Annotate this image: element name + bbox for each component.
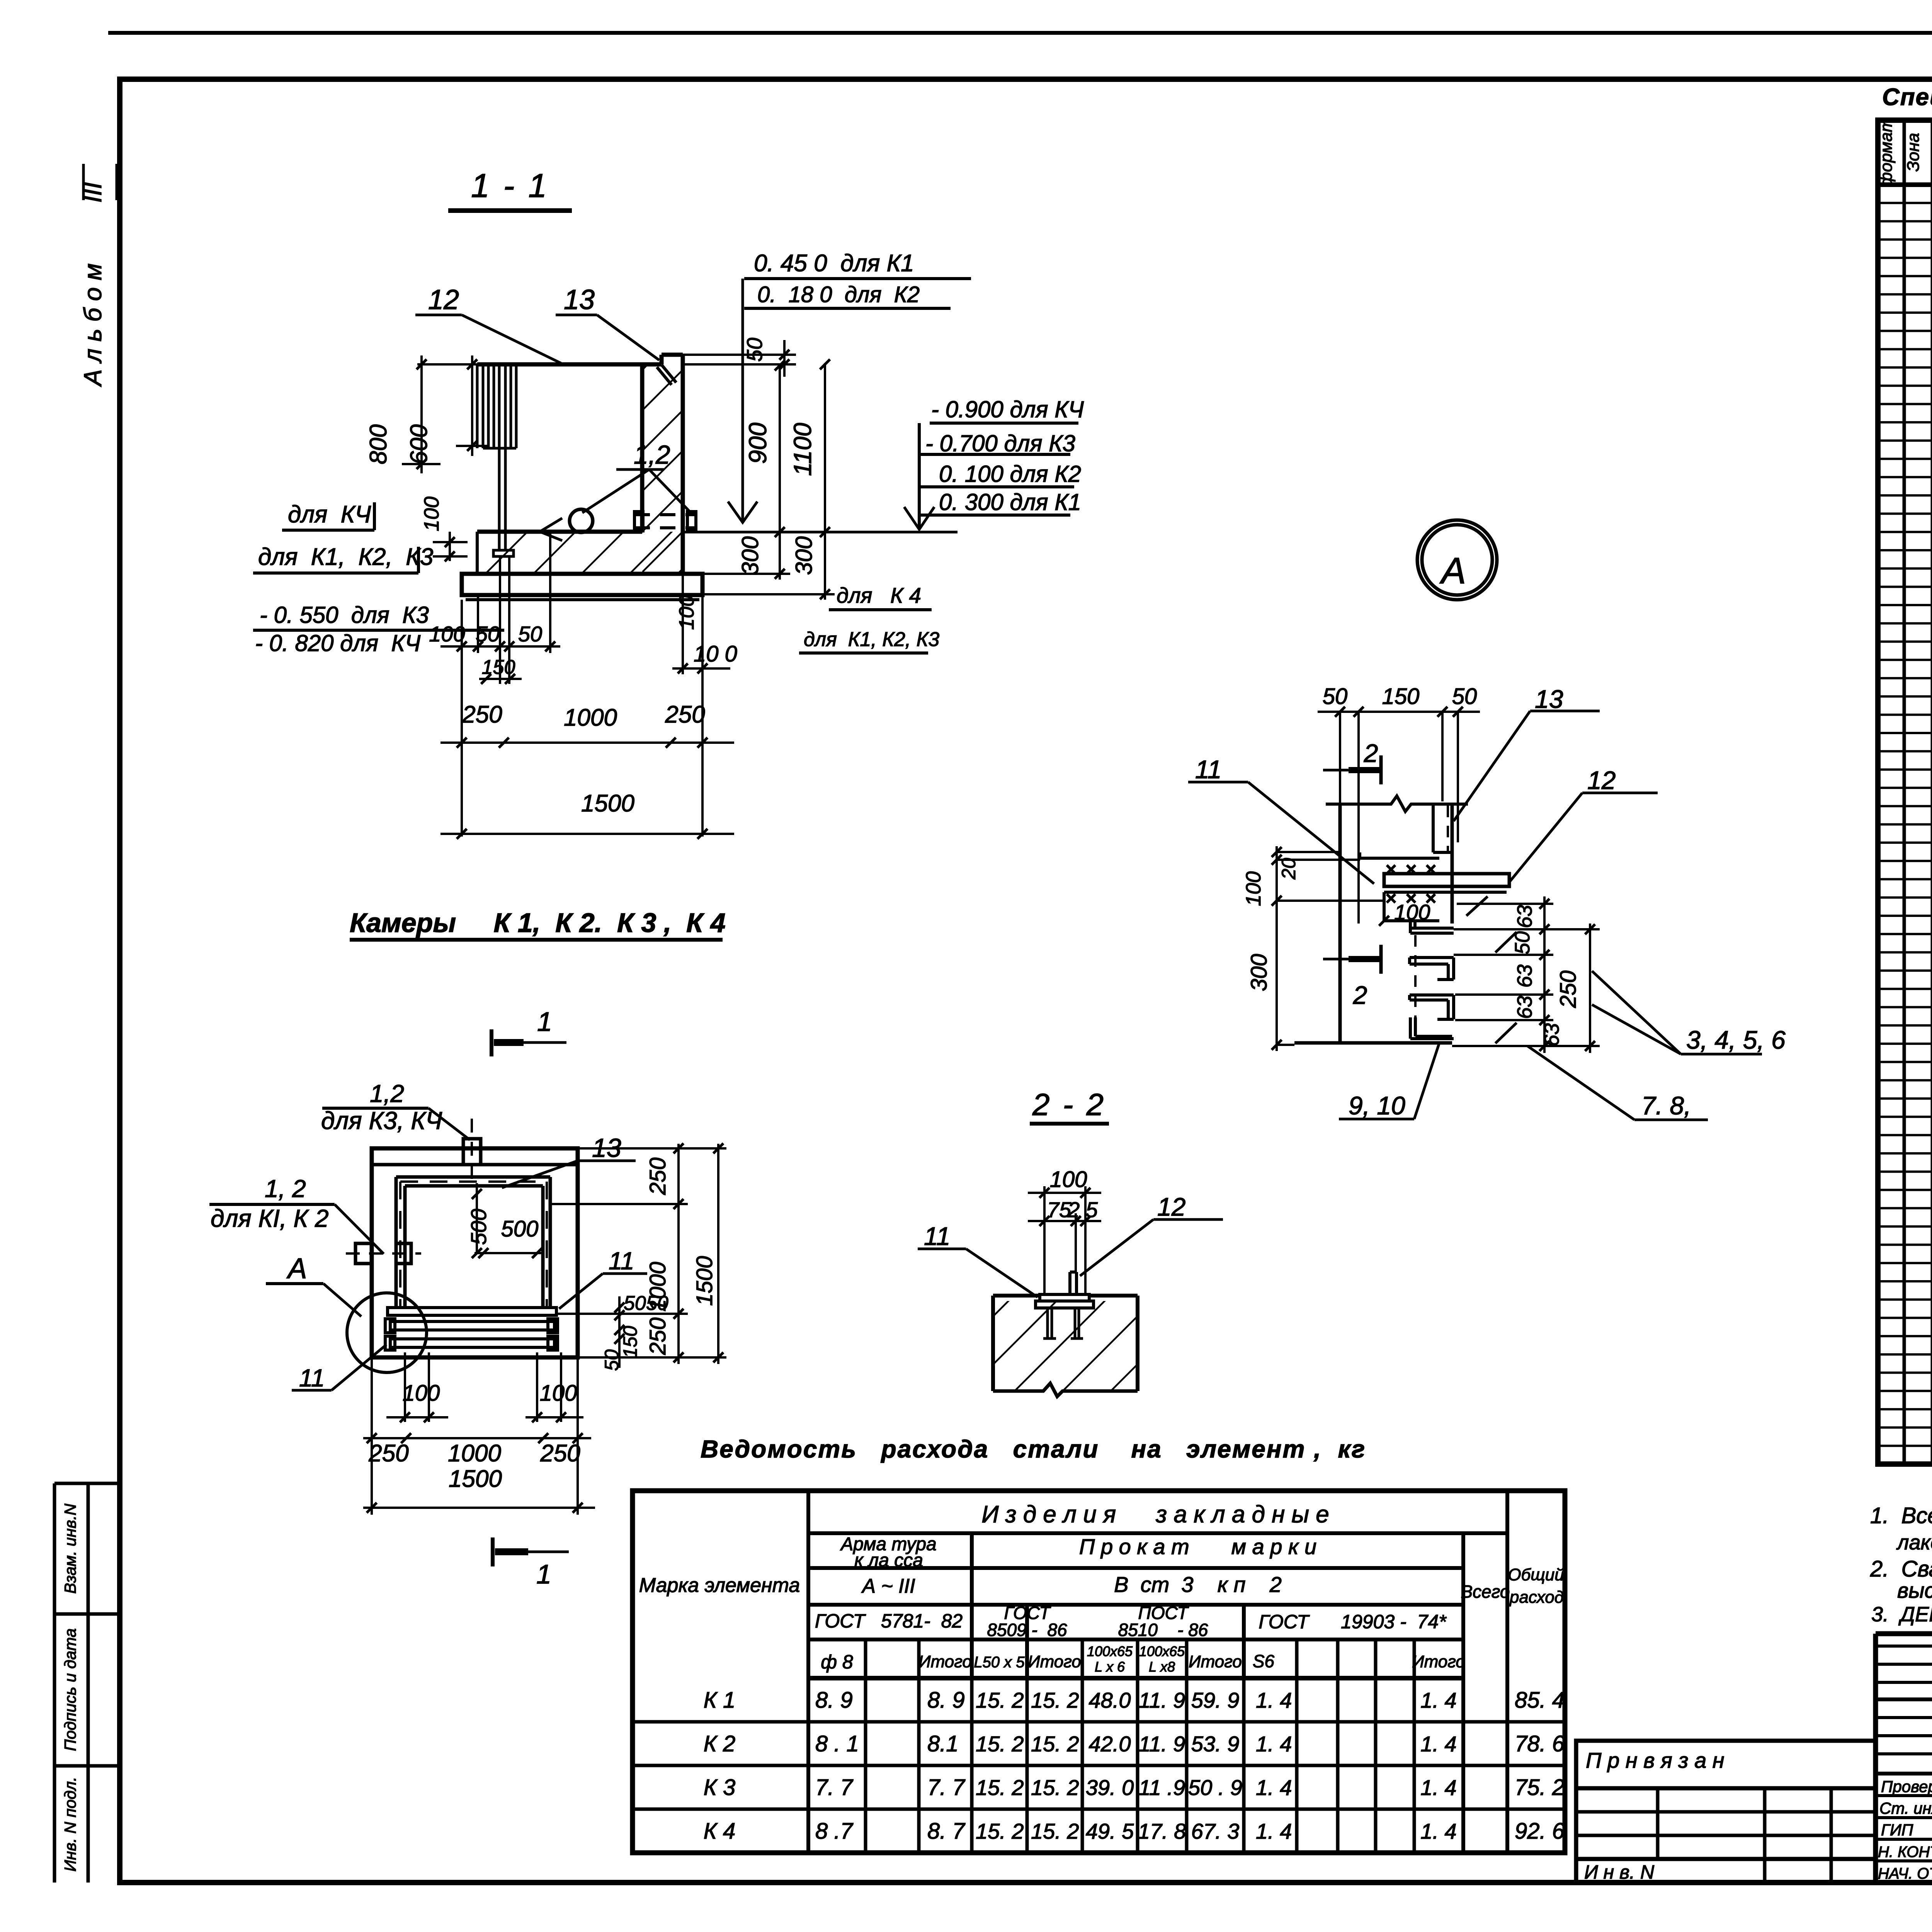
- svg-text:63: 63: [1513, 905, 1536, 928]
- plan right dim chain: [677, 1144, 680, 1364]
- svg-text:250: 250: [645, 1318, 670, 1355]
- left margin stamp strip: [53, 1483, 56, 1883]
- svg-text:50 . 9: 50 . 9: [1188, 1776, 1242, 1800]
- svg-text:15. 2: 15. 2: [976, 1819, 1024, 1844]
- svg-text:S6: S6: [1253, 1651, 1275, 1671]
- svg-text:К 3: К 3: [704, 1775, 736, 1800]
- svg-text:Итого: Итого: [918, 1652, 972, 1671]
- svg-text:2: 2: [1364, 739, 1378, 767]
- dim 800 left: [420, 355, 423, 473]
- svg-text:1500: 1500: [692, 1256, 717, 1306]
- svg-text:75. 2: 75. 2: [1515, 1775, 1565, 1800]
- svg-text:11: 11: [924, 1222, 951, 1250]
- node detail extension verticals: [1339, 712, 1341, 804]
- svg-text:150: 150: [1382, 684, 1420, 709]
- svg-text:50: 50: [624, 1292, 646, 1315]
- svg-text:11: 11: [299, 1364, 325, 1392]
- svg-text:12: 12: [428, 284, 459, 315]
- dim row 250 1000 250: [440, 742, 734, 744]
- svg-text:17. 8: 17. 8: [1138, 1819, 1186, 1844]
- node A circle mark: [1417, 520, 1497, 600]
- svg-text:к ла сса: к ла сса: [854, 1550, 923, 1571]
- svg-text:300: 300: [737, 536, 763, 575]
- svg-text:Итого: Итого: [1412, 1652, 1465, 1671]
- svg-text:250: 250: [462, 701, 502, 728]
- svg-text:49. 5: 49. 5: [1086, 1819, 1134, 1844]
- svg-text:13: 13: [564, 284, 595, 315]
- svg-text:Подпись и дата: Подпись и дата: [61, 1628, 79, 1751]
- svg-text:ГИП: ГИП: [1881, 1821, 1913, 1839]
- svg-text:Н. КОНТР.: Н. КОНТР.: [1878, 1844, 1932, 1861]
- svg-text:1 - 1: 1 - 1: [471, 167, 549, 204]
- svg-text:59. 9: 59. 9: [1191, 1688, 1240, 1713]
- dim 1100 right: [824, 363, 826, 532]
- svg-text:15. 2: 15. 2: [1031, 1688, 1079, 1713]
- svg-text:85. 4: 85. 4: [1515, 1688, 1565, 1713]
- node detail right extension lines: [1457, 903, 1553, 905]
- svg-text:8 .7: 8 .7: [815, 1819, 854, 1844]
- plan bottom band 3: [390, 1339, 554, 1347]
- svg-text:100: 100: [1242, 871, 1265, 906]
- svg-text:8 . 1: 8 . 1: [815, 1731, 859, 1757]
- svg-text:0. 45 0 для К1: 0. 45 0 для К1: [754, 250, 914, 277]
- svg-text:3. ДЕРЕВЯННЫЕ КРЫШКИ ПО: 3. ДЕРЕВЯННЫЕ КРЫШКИ ПОКАЗАНЫ НА ЛИСТЕ А…: [1871, 1603, 1932, 1626]
- plan top flange item 1 2: [463, 1139, 481, 1165]
- svg-text:0. 100 для К2: 0. 100 для К2: [939, 461, 1081, 487]
- svg-text:100: 100: [675, 595, 698, 630]
- detail 2-2 anchor legs: [1046, 1308, 1049, 1338]
- section 1-1 wall sleeve dashed: [634, 513, 696, 516]
- svg-text:2 5: 2 5: [1067, 1197, 1098, 1222]
- svg-text:11. 9: 11. 9: [1139, 1688, 1185, 1713]
- svg-text:2: 2: [1353, 981, 1367, 1009]
- svg-text:Итого: Итого: [1028, 1652, 1081, 1671]
- plan bottom band 1: [388, 1308, 556, 1315]
- svg-text:12: 12: [1157, 1192, 1185, 1221]
- svg-text:1. 4: 1. 4: [1256, 1732, 1292, 1756]
- node detail pocket 100: [1383, 892, 1386, 921]
- svg-text:100: 100: [1394, 900, 1430, 924]
- svg-text:1. 4: 1. 4: [1420, 1688, 1456, 1713]
- dim 900 right: [779, 364, 781, 532]
- svg-text:А: А: [286, 1252, 307, 1284]
- steel table header Izdeliya zakladnye: [808, 1531, 1507, 1535]
- svg-text:Спецификация к монолитным: Спецификация к монолитным камерам КI, К2…: [1882, 84, 1932, 111]
- plan dim 500 horizontal: [474, 1252, 543, 1254]
- svg-text:100х65: 100х65: [1139, 1643, 1185, 1659]
- svg-text:В ст 3 к п 2: В ст 3 к п 2: [1114, 1572, 1282, 1597]
- svg-text:1100: 1100: [789, 423, 816, 476]
- svg-text:К 1: К 1: [704, 1688, 736, 1713]
- svg-text:15. 2: 15. 2: [976, 1688, 1024, 1713]
- plan dim 500 vertical: [476, 1183, 478, 1253]
- node detail ledge: [1360, 857, 1439, 860]
- svg-text:П р н в я з а н: П р н в я з а н: [1586, 1748, 1725, 1772]
- svg-text:1. 4: 1. 4: [1420, 1819, 1456, 1844]
- svg-text:500: 500: [501, 1216, 539, 1242]
- spec table half-pitch lines left columns: [1878, 202, 1932, 204]
- dim 600 left: [471, 355, 473, 456]
- svg-text:7. 8,: 7. 8,: [1641, 1091, 1691, 1120]
- svg-text:900: 900: [744, 422, 772, 464]
- steel table header A-III / VSt3kp2: [808, 1603, 1463, 1607]
- paper top edge: [108, 31, 1932, 35]
- svg-text:63: 63: [1513, 964, 1536, 988]
- svg-text:11. 9: 11. 9: [1139, 1732, 1185, 1756]
- svg-text:8509 - 86: 8509 - 86: [987, 1620, 1067, 1640]
- detail 2-2 concrete block: [993, 1294, 1040, 1298]
- steel table header armatura/prokat: [808, 1566, 1463, 1570]
- svg-text:1500: 1500: [581, 790, 634, 817]
- svg-text:для КI, К 2: для КI, К 2: [211, 1204, 329, 1232]
- section 1-1 drain arrow: [540, 518, 562, 541]
- svg-text:для КЧ: для КЧ: [288, 501, 371, 528]
- svg-text:формат: формат: [1877, 118, 1896, 187]
- svg-text:Общий: Общий: [1508, 1565, 1564, 1584]
- title block small grid rows: [1876, 1645, 1932, 1648]
- plan outer square: [372, 1148, 578, 1357]
- node detail dashed centerline: [1414, 935, 1417, 1028]
- dim row 100 50 50: [440, 645, 560, 648]
- svg-text:7. 7: 7. 7: [927, 1775, 966, 1800]
- svg-text:А ~ III: А ~ III: [861, 1575, 915, 1597]
- node detail channel B: [1410, 956, 1454, 959]
- svg-text:ГОСТ 5781- 82: ГОСТ 5781- 82: [815, 1610, 963, 1632]
- dim row 1500: [440, 833, 734, 835]
- node detail section mark 2 upper: [1379, 755, 1383, 784]
- svg-text:1: 1: [536, 1559, 551, 1589]
- svg-text:ГОСТ 19903 - 74*: ГОСТ 19903 - 74*: [1259, 1611, 1447, 1633]
- svg-text:20: 20: [1278, 858, 1299, 880]
- svg-text:250: 250: [645, 1158, 670, 1196]
- svg-text:лаком ХВ - 784 по ГОСТ: лаком ХВ - 784 по ГОСТ 73 13 - 75 по огр…: [1896, 1531, 1932, 1554]
- section 1-1 pipe circle: [570, 509, 593, 532]
- svg-text:для К1, К2, К3: для К1, К2, К3: [804, 628, 939, 651]
- detail 2-2 angle piece: [1068, 1272, 1071, 1294]
- svg-text:2 - 2: 2 - 2: [1032, 1087, 1106, 1122]
- node detail see marks: [1495, 932, 1517, 952]
- svg-text:48.0: 48.0: [1089, 1688, 1131, 1713]
- svg-text:НАЧ. ОТД: НАЧ. ОТД: [1878, 1865, 1932, 1882]
- svg-text:А: А: [1439, 550, 1466, 592]
- section 1-1 floor hatch band: [477, 532, 683, 574]
- node detail channel D bottom: [1409, 1017, 1412, 1039]
- node detail floor line: [1294, 1041, 1452, 1045]
- section 1-1 floor line: [477, 530, 642, 534]
- steel table bottom header cells: [808, 1676, 1463, 1680]
- svg-text:расход: расход: [1509, 1588, 1564, 1607]
- svg-text:78. 6: 78. 6: [1515, 1731, 1565, 1757]
- plan dim row 250 1000 250: [363, 1437, 591, 1439]
- node detail channel A: [1410, 927, 1454, 930]
- svg-text:- 0. 550 для К3: - 0. 550 для К3: [260, 602, 429, 628]
- svg-text:И з д е л и я з а к л а д: И з д е л и я з а к л а д н ы е: [981, 1501, 1329, 1528]
- svg-text:L50 х 5: L50 х 5: [974, 1654, 1025, 1671]
- steel table outer: [633, 1491, 1565, 1853]
- svg-text:50: 50: [518, 622, 542, 646]
- svg-text:Ст. инж.: Ст. инж.: [1879, 1799, 1932, 1817]
- plan dim row 1500: [363, 1507, 595, 1509]
- svg-text:Марка элемента: Марка элемента: [639, 1574, 800, 1597]
- svg-text:50: 50: [1323, 684, 1348, 709]
- svg-text:50: 50: [646, 1292, 668, 1315]
- section 1-1 left wall foot plate: [493, 550, 514, 556]
- svg-text:Итого: Итого: [1189, 1652, 1242, 1671]
- node detail top dims 50 150 50: [1318, 711, 1480, 713]
- svg-text:250: 250: [1556, 971, 1581, 1009]
- svg-text:1000: 1000: [564, 704, 617, 731]
- svg-text:К 4: К 4: [704, 1819, 736, 1844]
- svg-text:11: 11: [1195, 755, 1222, 784]
- spec table column lines: [1903, 120, 1906, 1464]
- svg-text:Ведомость расхода стали: Ведомость расхода стали на элемент , кг: [701, 1435, 1366, 1463]
- svg-text:1,2: 1,2: [634, 440, 670, 469]
- section 1-1 right wall faces: [640, 364, 645, 532]
- svg-text:42.0: 42.0: [1089, 1732, 1131, 1756]
- level line right: [683, 531, 957, 534]
- section 1-1 top slab line: [477, 362, 662, 367]
- svg-text:1. 4: 1. 4: [1420, 1732, 1456, 1756]
- section 1-1 wall hatch: [642, 364, 683, 574]
- svg-text:- 0.700 для К3: - 0.700 для К3: [925, 430, 1075, 456]
- svg-text:11: 11: [609, 1247, 634, 1275]
- svg-text:L х 6: L х 6: [1095, 1659, 1125, 1675]
- detail 2-2 embed plate: [1040, 1294, 1089, 1301]
- plan chamber dashed centerlines: [399, 1182, 401, 1308]
- section mark 1 top: [490, 1029, 493, 1056]
- svg-text:67. 3: 67. 3: [1191, 1819, 1240, 1844]
- svg-text:92. 6: 92. 6: [1515, 1819, 1565, 1844]
- svg-text:3, 4, 5, 6: 3, 4, 5, 6: [1686, 1026, 1786, 1054]
- svg-text:Камеры К 1, К 2. К 3 ,: Камеры К 1, К 2. К 3 , К 4: [350, 908, 726, 938]
- svg-text:100х65: 100х65: [1087, 1643, 1133, 1659]
- svg-text:39. 0: 39. 0: [1086, 1776, 1134, 1800]
- svg-text:К 2: К 2: [704, 1731, 736, 1757]
- plan circle A: [347, 1293, 427, 1372]
- plan top band line: [372, 1163, 578, 1167]
- svg-text:1, 2: 1, 2: [265, 1175, 306, 1202]
- svg-text:50: 50: [1452, 684, 1477, 709]
- node detail wall right faces: [1451, 804, 1454, 923]
- svg-text:12: 12: [1587, 766, 1616, 794]
- svg-text:0. 300 для К1: 0. 300 для К1: [939, 489, 1081, 515]
- spec table header row line: [1878, 182, 1932, 187]
- svg-text:1. 4: 1. 4: [1256, 1688, 1292, 1713]
- svg-text:300: 300: [791, 536, 817, 575]
- svg-text:100: 100: [540, 1381, 577, 1406]
- title block outline: [1876, 1631, 1932, 1636]
- svg-text:15. 2: 15. 2: [1031, 1732, 1079, 1756]
- svg-text:100: 100: [420, 497, 443, 531]
- svg-text:250: 250: [368, 1440, 408, 1467]
- svg-text:10 0: 10 0: [694, 641, 737, 667]
- svg-text:для К 4: для К 4: [837, 583, 921, 607]
- svg-text:Провер.: Провер.: [1881, 1777, 1932, 1796]
- node detail left dims 20 100 300: [1276, 846, 1278, 1051]
- svg-text:для К1, К2, К3: для К1, К2, К3: [258, 544, 433, 570]
- bottom dim extensions: [461, 600, 463, 837]
- svg-text:П р о к а т м а р к и: П р о к а т м а р к и: [1079, 1534, 1316, 1559]
- svg-text:600: 600: [406, 424, 432, 464]
- detail 2-2 concrete hatch: [993, 1301, 1138, 1391]
- svg-text:250: 250: [540, 1440, 580, 1467]
- node detail wall break line: [1326, 796, 1468, 811]
- node detail plate 13 with x marks: [1384, 874, 1509, 886]
- frame bottom closure: [120, 1880, 1932, 1885]
- svg-text:15. 2: 15. 2: [1031, 1819, 1079, 1844]
- steel table sub columns: [864, 1639, 867, 1853]
- svg-text:1,2: 1,2: [370, 1080, 404, 1107]
- dim 100 left floor: [449, 532, 451, 561]
- svg-text:8. 7: 8. 7: [927, 1819, 966, 1844]
- detail 2-2 extension lines: [1043, 1186, 1046, 1296]
- plan bottom band 2: [390, 1321, 554, 1330]
- svg-text:50: 50: [742, 338, 767, 362]
- svg-text:А л ь б о м: А л ь б о м: [79, 264, 107, 388]
- svg-text:250: 250: [665, 701, 705, 728]
- spec table outer: [1878, 120, 1932, 1464]
- dim 300 300 below right: [779, 532, 781, 580]
- node detail rebate: [1432, 806, 1435, 852]
- svg-text:300: 300: [1247, 954, 1272, 992]
- steel table header GOST row: [808, 1638, 1463, 1641]
- plan chamber inner walls: [395, 1177, 398, 1309]
- svg-text:1000: 1000: [448, 1440, 501, 1467]
- svg-text:ф 8: ф 8: [821, 1651, 853, 1673]
- svg-text:- 0. 820 для КЧ: - 0. 820 для КЧ: [255, 630, 421, 656]
- node detail dim chain 63 50 63 63 63: [1543, 896, 1546, 1053]
- section mark 1 bottom: [491, 1537, 495, 1566]
- node detail wall left face: [1338, 804, 1342, 1043]
- node detail channel C: [1410, 993, 1454, 997]
- svg-text:50: 50: [476, 622, 500, 646]
- privyazan grid: [1576, 1786, 1876, 1791]
- svg-text:8.1: 8.1: [927, 1731, 959, 1757]
- svg-text:И н в. N: И н в. N: [1584, 1861, 1655, 1883]
- svg-text:800: 800: [365, 424, 392, 464]
- plan left flange item 1 2: [355, 1243, 372, 1264]
- svg-text:11 .9: 11 .9: [1139, 1776, 1185, 1800]
- svg-text:1: 1: [537, 1007, 552, 1037]
- svg-text:100: 100: [1050, 1167, 1087, 1192]
- node detail dim 250: [1589, 923, 1591, 1053]
- svg-text:15. 2: 15. 2: [976, 1732, 1024, 1756]
- svg-text:Инв. N подл.: Инв. N подл.: [61, 1777, 79, 1871]
- svg-text:63: 63: [1513, 996, 1536, 1019]
- svg-text:150: 150: [482, 656, 515, 679]
- svg-text:высоту шва принять: высоту шва принять h шв = 6 м м: [1897, 1578, 1932, 1602]
- svg-text:7. 7: 7. 7: [815, 1775, 854, 1800]
- svg-text:8. 9: 8. 9: [815, 1688, 853, 1713]
- section 1-1 sleeve end plates: [634, 512, 643, 531]
- svg-text:500: 500: [466, 1209, 491, 1245]
- svg-text:Зона: Зона: [1904, 133, 1923, 172]
- svg-text:для К3, КЧ: для К3, КЧ: [321, 1107, 442, 1134]
- svg-text:8510 - 86: 8510 - 86: [1118, 1620, 1208, 1640]
- dim 150: [479, 678, 522, 680]
- section 1-1 left wall sheet pile lines: [476, 364, 479, 448]
- node detail section mark 2 lower: [1379, 945, 1383, 974]
- svg-text:1500: 1500: [449, 1466, 502, 1492]
- svg-text:1. 4: 1. 4: [1420, 1776, 1456, 1800]
- svg-text:L х8: L х8: [1149, 1659, 1175, 1675]
- svg-text:100: 100: [403, 1381, 440, 1406]
- privyazan box: [1576, 1741, 1876, 1788]
- svg-text:- 0.900 для КЧ: - 0.900 для КЧ: [931, 396, 1084, 422]
- svg-text:9, 10: 9, 10: [1349, 1091, 1405, 1120]
- svg-text:1. 4: 1. 4: [1256, 1819, 1292, 1844]
- svg-text:100: 100: [429, 622, 465, 646]
- svg-text:15. 2: 15. 2: [976, 1776, 1024, 1800]
- svg-text:Взам. инв.N: Взам. инв.N: [61, 1503, 79, 1594]
- svg-text:150: 150: [619, 1326, 641, 1358]
- svg-text:1. 4: 1. 4: [1256, 1776, 1292, 1800]
- section 1-1 right wall lip: [662, 353, 683, 357]
- svg-text:63: 63: [1540, 1023, 1563, 1046]
- svg-text:53. 9: 53. 9: [1191, 1732, 1240, 1756]
- steel table columns vsego obschiy: [1461, 1533, 1465, 1853]
- svg-text:0. 18 0 для К2: 0. 18 0 для К2: [757, 282, 920, 307]
- title block signature rows: [1876, 1794, 1932, 1797]
- svg-text:8. 9: 8. 9: [927, 1688, 965, 1713]
- svg-text:15. 2: 15. 2: [1031, 1776, 1079, 1800]
- svg-text:Всего: Всего: [1461, 1582, 1510, 1602]
- section 1-1 footing: [462, 574, 702, 595]
- svg-text:1. Все металлоконструкции ,: 1. Все металлоконструкции , соприкасающи…: [1870, 1503, 1932, 1528]
- section 1-1 wall weld mark: [657, 367, 672, 385]
- svg-text:13: 13: [1535, 685, 1563, 713]
